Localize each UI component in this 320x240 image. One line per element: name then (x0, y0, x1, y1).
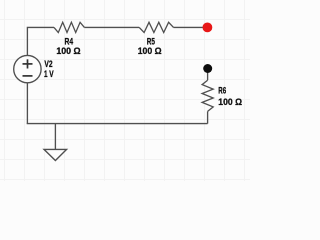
svg-text:R6: R6 (218, 86, 226, 97)
node black terminal (203, 64, 212, 73)
resistor R5 (139, 22, 173, 32)
wire between R4 and R5 (84, 26, 139, 28)
wire left vertical below V2 to bottom rail (26, 83, 28, 124)
wire bottom rail (27, 123, 208, 125)
ground (44, 149, 67, 160)
svg-text:100 Ω: 100 Ω (56, 46, 81, 57)
wire stub from black node down to R6 (207, 70, 209, 80)
svg-text:100 Ω: 100 Ω (218, 97, 242, 108)
svg-text:100 Ω: 100 Ω (138, 46, 162, 57)
resistor R6 (202, 80, 213, 111)
resistor R4 (54, 22, 84, 32)
svg-text:1V: 1V (44, 69, 54, 80)
wire from R5 to red node (174, 26, 207, 28)
wire top-left horizontal from corner to R4 (27, 27, 54, 55)
voltage source V2 minus sign (23, 75, 33, 77)
node red terminal (203, 23, 213, 33)
voltage source V2 circle (14, 55, 41, 82)
voltage source V2 plus sign (23, 59, 33, 68)
wire ground stub (54, 124, 56, 150)
wire stub from R6 bottom to bottom rail (207, 111, 209, 123)
